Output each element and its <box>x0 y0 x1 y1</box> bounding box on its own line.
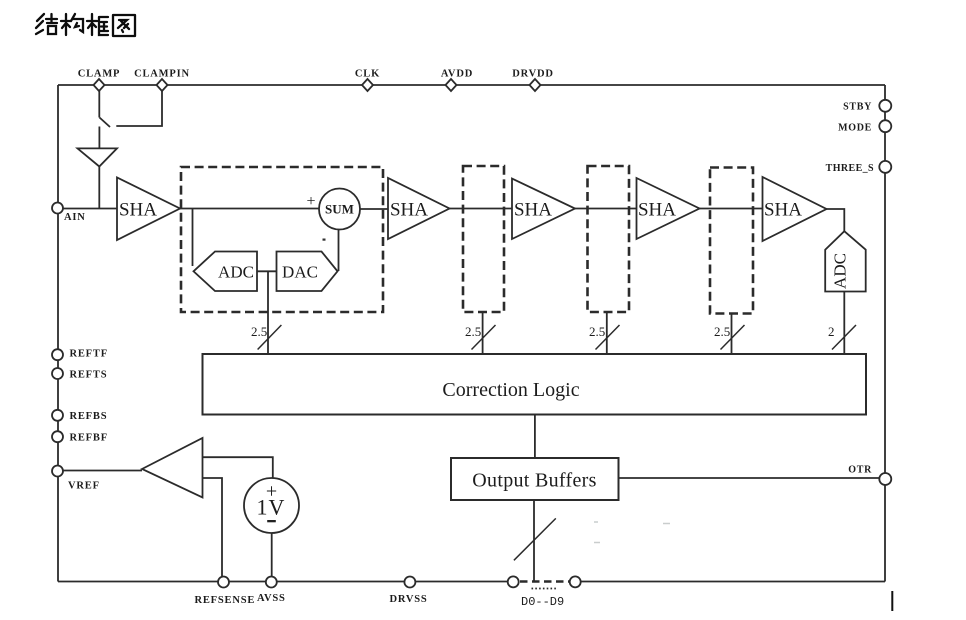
wire switch to clamp amp <box>98 127 100 149</box>
title 结构框图 <box>36 14 135 36</box>
bus slash data <box>514 518 556 560</box>
dashed stage box 4 <box>710 168 753 314</box>
svg-text:AIN: AIN <box>64 212 86 223</box>
wire left border <box>57 85 59 582</box>
svg-text:REFBS: REFBS <box>70 411 108 422</box>
clamp amplifier triangle <box>78 148 118 166</box>
wire amp lower input to REFSENSE <box>203 478 223 577</box>
label minus <box>323 239 326 241</box>
pin DRVDD <box>512 69 554 92</box>
svg-text:AVSS: AVSS <box>257 593 286 604</box>
wire amp upper input to 1V <box>203 457 273 478</box>
svg-text:Correction Logic: Correction Logic <box>442 379 579 401</box>
wire bottom border <box>58 581 885 583</box>
switch arm <box>100 118 111 128</box>
svg-text:1V: 1V <box>257 495 286 520</box>
svg-text:REFSENSE: REFSENSE <box>195 595 256 606</box>
bus slash stage4 <box>721 325 745 350</box>
pin D0 <box>508 576 519 587</box>
wire SHA3 to SHA4 <box>575 208 637 210</box>
svg-text:Output Buffers: Output Buffers <box>472 470 596 492</box>
op-amp SHA1 <box>117 178 180 241</box>
wire bus stage3 down <box>606 312 608 354</box>
pin AIN <box>52 203 86 224</box>
wire SHA2 to SHA3 <box>450 208 513 210</box>
wire right border <box>884 85 886 582</box>
wire ADC to DAC <box>257 270 277 272</box>
svg-text:SHA: SHA <box>390 200 428 221</box>
wire CLAMP down <box>98 91 100 118</box>
dashed stage box 1 <box>181 167 383 312</box>
svg-text:REFTS: REFTS <box>70 370 108 381</box>
block Correction Logic <box>203 354 867 415</box>
pin OTR <box>848 465 891 486</box>
pin THREE_S <box>826 161 892 174</box>
wire dashed D0-D9 <box>520 580 569 583</box>
pin D9 <box>570 576 581 587</box>
block Output Buffers <box>451 458 619 500</box>
svg-text:DRVSS: DRVSS <box>390 594 428 605</box>
svg-text:DAC: DAC <box>282 263 318 282</box>
wire top border <box>58 84 885 86</box>
wire 1V to AVSS <box>271 533 273 577</box>
pin DRVSS <box>390 577 428 606</box>
dashed stage box 3 <box>588 166 630 312</box>
svg-text:AVDD: AVDD <box>441 69 473 80</box>
svg-text:D0--D9: D0--D9 <box>521 595 564 609</box>
wire bus ADC2 down <box>843 292 845 354</box>
svg-text:2.5: 2.5 <box>714 324 730 339</box>
ADC A2 <box>825 231 866 291</box>
svg-text:SUM: SUM <box>325 202 354 217</box>
svg-text:SHA: SHA <box>638 200 676 221</box>
wire DAC to SUM <box>338 230 340 272</box>
cursor artifact <box>891 591 893 611</box>
wire data bus down <box>533 500 535 582</box>
DAC D1 <box>277 252 338 292</box>
svg-text:+: + <box>306 193 315 210</box>
wire SUM to SHA2 <box>360 208 388 210</box>
pin REFTS <box>52 368 107 381</box>
dotted ellipsis <box>532 588 557 590</box>
wire bus stage1 down <box>267 271 269 353</box>
svg-text:REFTF: REFTF <box>70 349 108 360</box>
svg-text:THREE_S: THREE_S <box>826 163 874 174</box>
source 1V <box>244 478 299 533</box>
faint smudges <box>594 522 670 543</box>
wire clamp amp output <box>98 167 100 209</box>
wire tap to ADC <box>192 209 194 267</box>
op-amp SHA2 <box>388 178 450 239</box>
wire SHA5 to ADC2 <box>827 209 845 231</box>
op-amp VREF buffer <box>142 438 203 498</box>
svg-text:ADC: ADC <box>831 253 850 289</box>
pin AVSS <box>257 577 286 605</box>
pin CLK <box>355 69 380 92</box>
wire VREF to amp <box>63 470 142 472</box>
bus slash stage2 <box>472 325 496 350</box>
svg-text:STBY: STBY <box>843 102 872 113</box>
wire bus stage2 down <box>482 312 484 354</box>
pin REFTF <box>52 349 108 361</box>
pin REFBS <box>52 410 107 422</box>
wire CL to Output Buffers <box>534 415 536 459</box>
svg-text:2: 2 <box>828 324 835 339</box>
pin REFSENSE <box>195 577 256 607</box>
wire SHA1 to SUM <box>180 208 319 210</box>
svg-text:REFBF: REFBF <box>70 433 108 444</box>
pin VREF <box>52 466 100 492</box>
svg-text:OTR: OTR <box>848 465 872 476</box>
svg-text:2.5: 2.5 <box>251 324 267 339</box>
pin CLAMPIN <box>134 69 190 92</box>
svg-text:SHA: SHA <box>119 200 157 221</box>
pin CLAMP <box>78 69 121 92</box>
ADC A1 <box>194 252 258 292</box>
pin STBY <box>843 100 891 113</box>
pin MODE <box>838 120 891 133</box>
svg-text:ADC: ADC <box>218 263 254 282</box>
svg-text:DRVDD: DRVDD <box>512 69 554 80</box>
wire CLAMPIN branch <box>116 91 162 126</box>
svg-text:VREF: VREF <box>68 481 100 492</box>
svg-text:MODE: MODE <box>838 123 872 134</box>
svg-text:SHA: SHA <box>514 200 552 221</box>
svg-text:SHA: SHA <box>764 200 802 221</box>
dashed stage box 2 <box>463 166 504 312</box>
pin AVDD <box>441 69 473 92</box>
op-amp SHA4 <box>637 178 700 239</box>
svg-text:CLAMPIN: CLAMPIN <box>134 69 190 80</box>
svg-text:CLK: CLK <box>355 69 380 80</box>
wire SHA4 to SHA5 <box>700 208 763 210</box>
wire AIN to SHA1 <box>63 208 117 210</box>
svg-text:2.5: 2.5 <box>465 324 481 339</box>
bus slash stage3 <box>596 325 620 350</box>
wire bus stage4 down <box>731 314 733 354</box>
svg-text:2.5: 2.5 <box>589 324 605 339</box>
op-amp SHA5 <box>763 177 827 241</box>
svg-text:CLAMP: CLAMP <box>78 69 121 80</box>
op-amp SHA3 <box>512 179 575 240</box>
summer SUM <box>319 189 360 230</box>
bus slash stage1 <box>258 325 282 350</box>
pin REFBF <box>52 431 108 443</box>
wire Output Buffers to OTR <box>619 477 880 479</box>
bus slash ADC2 <box>832 325 856 350</box>
